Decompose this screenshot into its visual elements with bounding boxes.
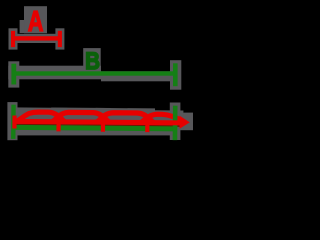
- red junction tick 3: [145, 120, 149, 132]
- bbox highlight of segment A right tick: [55, 28, 64, 49]
- bbox highlight of segment B right tick: [170, 60, 181, 89]
- bbox highlight of junction tick 1: [54, 117, 64, 133]
- bbox highlight of right arrowhead: [177, 113, 193, 131]
- red hop arc 2: [52, 112, 109, 122]
- maroon blend band between red line and green line: [15, 124, 180, 127]
- red measuring line (4 copies of A laid along B): [14, 119, 181, 125]
- bbox highlight under hop arc 1: [12, 107, 68, 128]
- bbox highlight under hop arc 4: [140, 110, 184, 130]
- bbox highlight of junction tick 2: [98, 117, 108, 133]
- red hop arc 3: [97, 113, 154, 123]
- red start tick (junction 0): [12, 115, 16, 128]
- segment B right tick: [173, 63, 178, 86]
- bottom green line (copy of B): [13, 125, 176, 131]
- segment B line: [13, 71, 176, 75]
- bbox highlight of junction tick 3: [143, 117, 153, 133]
- bbox highlight step left of label A: [20, 20, 25, 33]
- segment A line: [11, 36, 62, 40]
- red junction tick 1: [56, 119, 60, 131]
- red hop arc 4: [141, 114, 184, 123]
- bbox highlight under hop arc 2: [51, 108, 111, 130]
- svg-text:B: B: [85, 47, 100, 74]
- bbox highlight of bottom left tick: [7, 102, 17, 140]
- bbox highlight of segment A left tick: [9, 28, 18, 49]
- bbox highlight of segment B line right part: [101, 71, 179, 81]
- bbox highlight under hop arc 3: [95, 108, 155, 130]
- svg-text:A: A: [28, 6, 44, 38]
- bbox highlight of bottom green line: [10, 123, 178, 136]
- red right arrowhead: [180, 116, 190, 129]
- bottom green left tick: [11, 105, 16, 139]
- bottom green right tick: [173, 106, 178, 140]
- bbox highlight of label A: [24, 6, 47, 33]
- bbox highlight of label B: [83, 48, 101, 72]
- bbox highlight of bottom right tick: [170, 103, 181, 141]
- red junction tick 2: [101, 120, 105, 132]
- bbox highlight of segment B left tick: [8, 61, 19, 87]
- bbox highlight of segment B line left part: [8, 66, 101, 80]
- segment A left tick: [11, 31, 15, 47]
- bbox highlight of red measuring line: [11, 116, 192, 126]
- red hop arc 1: [14, 112, 65, 124]
- bbox highlight of segment A line: [11, 34, 63, 43]
- segment A right tick: [58, 31, 62, 47]
- segment B left tick: [11, 64, 16, 85]
